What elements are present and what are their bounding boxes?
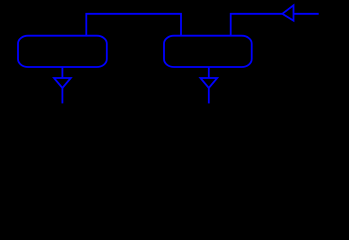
wire from arrowhead base to free end — [294, 13, 319, 15]
drain triangle T1 (below S1) — [54, 78, 71, 88]
wire stub below S2 — [208, 67, 210, 78]
state box S1 (left rounded rectangle) — [18, 36, 107, 67]
wire stub below S1 — [61, 67, 63, 78]
arrowhead (open triangle pointing left) — [282, 5, 293, 20]
wire below drain triangle T2 — [208, 88, 210, 103]
state box S2 (right rounded rectangle) — [164, 36, 252, 67]
wire from S2 top toward arrowhead — [231, 14, 283, 36]
drain triangle T2 (below S2) — [200, 78, 217, 88]
wire below drain triangle T1 — [61, 88, 63, 103]
wire from S1 top to S2 top — [86, 14, 181, 36]
